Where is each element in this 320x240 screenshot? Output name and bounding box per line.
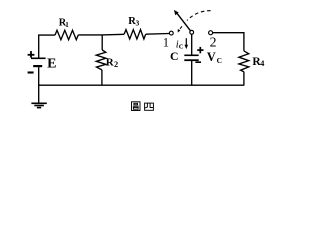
wire R2 bottom lead bbox=[101, 70, 103, 85]
wire R1 to R2 junction to R3 bbox=[78, 33, 124, 36]
svg-text:2: 2 bbox=[114, 60, 118, 69]
capacitor C top plate bbox=[184, 54, 198, 56]
svg-text:E: E bbox=[47, 56, 56, 71]
svg-text:3: 3 bbox=[136, 19, 140, 28]
svg-text:C: C bbox=[170, 49, 179, 63]
capacitor plus sign bbox=[197, 47, 203, 53]
resistor R1 bbox=[55, 30, 78, 39]
svg-text:1: 1 bbox=[163, 35, 169, 49]
svg-text:4: 4 bbox=[260, 59, 264, 68]
switch motion dashed arc bbox=[178, 11, 211, 33]
capacitor C bottom plate bbox=[184, 59, 198, 61]
ground bbox=[31, 103, 46, 107]
switch arm bbox=[174, 10, 190, 31]
battery plus sign bbox=[28, 51, 35, 58]
resistor R3 bbox=[124, 30, 146, 39]
wire R2 top lead bbox=[101, 35, 103, 50]
wire bottom rail bbox=[38, 84, 244, 86]
capacitor minus sign bbox=[195, 61, 201, 63]
svg-text:2: 2 bbox=[210, 35, 217, 50]
wire top rail left bbox=[38, 34, 55, 36]
wire battery negative lead to ground bbox=[38, 67, 40, 103]
svg-text:1: 1 bbox=[65, 21, 69, 29]
battery E positive plate bbox=[31, 57, 46, 59]
wire capacitor bottom lead bbox=[191, 61, 193, 85]
resistor R2 bbox=[96, 50, 106, 70]
wire capacitor top lead bbox=[191, 34, 193, 54]
wire R4 bottom lead bbox=[243, 72, 245, 86]
current ic arrow bbox=[185, 38, 189, 49]
node 1 terminal circle bbox=[169, 31, 173, 35]
wire R3 to node 1 bbox=[146, 33, 170, 36]
node 2 terminal circle bbox=[209, 31, 213, 35]
svg-text:C: C bbox=[179, 43, 184, 50]
svg-text:V: V bbox=[207, 50, 216, 64]
battery minus sign bbox=[28, 71, 34, 73]
resistor R4 bbox=[239, 51, 249, 72]
caption 四 glyph bbox=[145, 103, 154, 110]
switch pivot circle bbox=[190, 30, 194, 34]
wire battery top lead bbox=[38, 35, 40, 57]
wire node 2 to R4 branch bbox=[213, 33, 244, 51]
battery E negative plate bbox=[33, 65, 42, 67]
caption 圖 (figure) glyph bbox=[132, 102, 141, 111]
svg-text:C: C bbox=[217, 56, 222, 65]
